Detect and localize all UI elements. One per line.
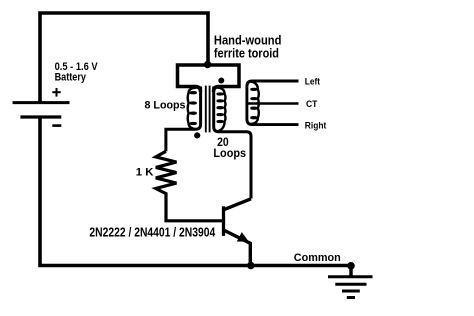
svg-text:Left: Left (305, 77, 321, 88)
svg-text:Loops: Loops (213, 147, 246, 160)
svg-text:Battery: Battery (55, 72, 87, 84)
svg-text:2N2222 / 2N4401 / 2N3904: 2N2222 / 2N4401 / 2N3904 (89, 225, 215, 240)
svg-text:Hand-wound: Hand-wound (214, 33, 282, 47)
svg-text:Common: Common (294, 252, 341, 264)
svg-text:Right: Right (305, 120, 327, 130)
svg-text:8 Loops: 8 Loops (145, 99, 186, 111)
svg-text:CT: CT (306, 99, 318, 109)
svg-text:ferrite toroid: ferrite toroid (214, 46, 279, 60)
svg-text:1 K: 1 K (136, 167, 154, 179)
